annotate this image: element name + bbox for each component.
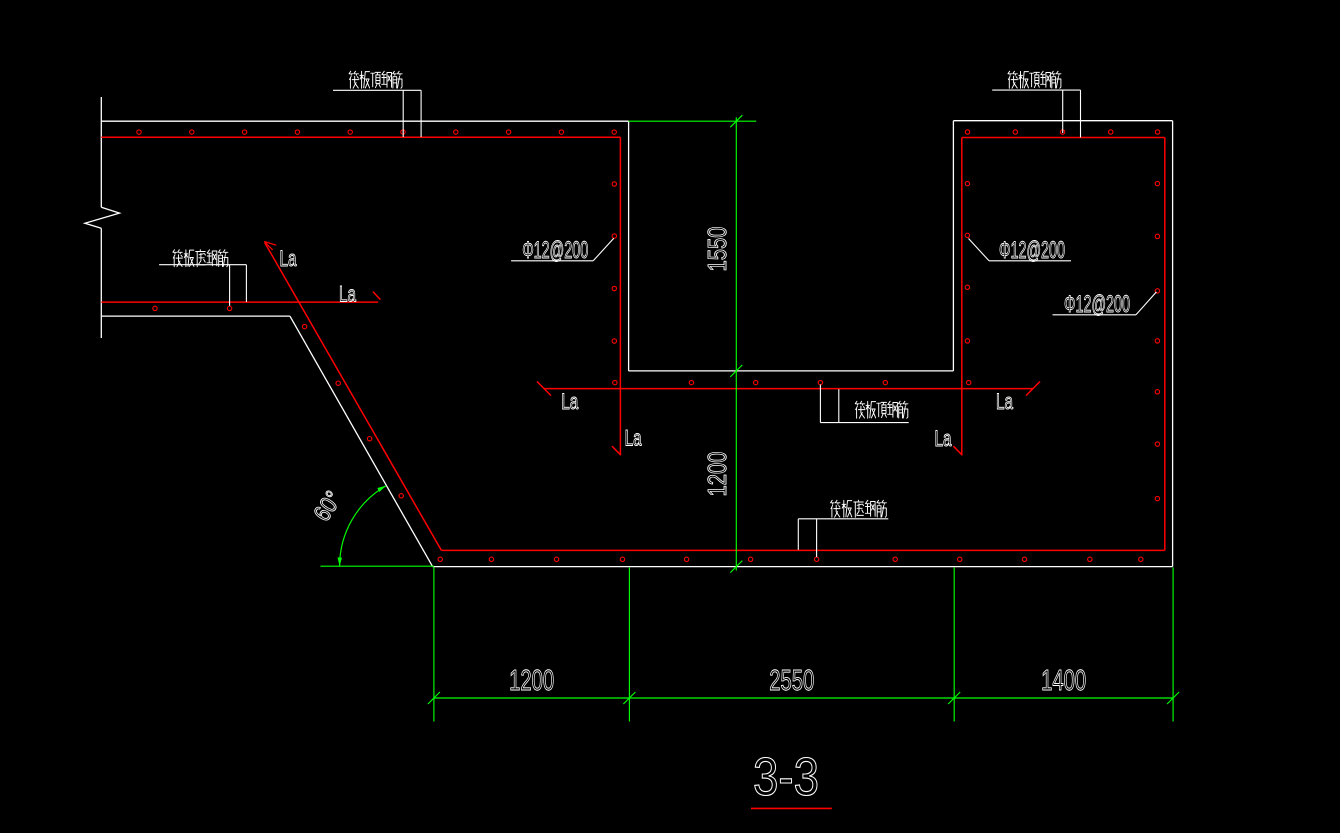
rebar section dots: right block top row	[965, 130, 1160, 134]
rebar: raft bottom bar	[441, 549, 1164, 551]
rebar section dots: pit bottom row	[613, 380, 971, 384]
concrete outline: bottom of raft	[433, 566, 1173, 568]
svg-text:1200: 1200	[509, 665, 554, 697]
vertical dimension line 1550/1200 (green)	[735, 117, 737, 570]
dimension tick bottom	[623, 692, 635, 704]
concrete outline: pit right wall	[952, 121, 954, 371]
rebar section dots: raft bottom row	[438, 557, 1143, 561]
rebar: right block top bar	[962, 137, 1165, 139]
svg-text:1200: 1200	[702, 452, 732, 497]
label Phi12@200 right leader	[1136, 292, 1156, 315]
concrete outline: pit bottom	[629, 370, 954, 372]
60 degree angle arc (green)	[340, 486, 387, 567]
rebar tick at end of upper slab bottom bar	[373, 292, 381, 300]
title underline (red)	[751, 807, 832, 809]
bottom dimension extension line x=433.9 (green)	[433, 568, 435, 722]
rebar: right block left bar bent down with La anchorage	[961, 138, 963, 456]
svg-text:La: La	[996, 389, 1014, 414]
label D underline	[798, 518, 888, 520]
concrete outline: right edge	[1172, 121, 1174, 567]
label text top slab top-bar (fa-ban-ding-gang-jin)	[349, 71, 402, 88]
bottom dimension extension line x=1173.1 (green)	[1172, 568, 1174, 722]
rebar section dots: right block left column	[965, 181, 969, 343]
rebar tick right end of pit bottom bar	[1026, 382, 1040, 396]
label D leader 1	[797, 519, 799, 550]
concrete outline: pit left wall	[628, 121, 630, 371]
label C leader 1	[819, 385, 821, 423]
rebar section dots: sloped haunch	[302, 324, 403, 498]
rebar: upper slab bottom bar (left, La extension)	[101, 301, 378, 303]
dimension tick at y=371	[730, 365, 742, 377]
label Phi12@200 mid leader	[969, 239, 990, 261]
label Phi12@200 left leader	[593, 238, 614, 260]
label E leader 2	[245, 265, 247, 302]
rebar anchorage tick (right block left bar end)	[953, 446, 962, 455]
label Phi12@200 right underline	[1053, 314, 1137, 316]
rebar anchorage tick (pit left bar end)	[612, 446, 621, 455]
bottom dimension line (green)	[434, 697, 1173, 699]
svg-text:La: La	[280, 246, 298, 271]
dimension tick bottom	[948, 692, 960, 704]
label text right block top-bar (fa-ban-ding-gang-jin)	[1008, 71, 1061, 88]
svg-text:1400: 1400	[1041, 665, 1086, 697]
bottom dimension extension line x=629.4 (green)	[628, 568, 630, 722]
label B leader 2	[1080, 90, 1082, 137]
svg-text:3-3: 3-3	[753, 747, 819, 807]
svg-text:Φ12@200: Φ12@200	[999, 237, 1065, 264]
label text raft bottom bar (fa-ban-di-gang-jin)	[831, 500, 887, 517]
label A underline	[333, 89, 421, 91]
bottom dimension extension line x=954.2 (green)	[953, 568, 955, 722]
break symbol on left wall edge	[85, 207, 120, 228]
svg-text:La: La	[339, 282, 357, 307]
svg-text:La: La	[935, 426, 953, 451]
concrete outline: upper slab soffit (left)	[101, 315, 290, 317]
concrete outline: top surface left slab	[101, 120, 628, 122]
rebar: sloped haunch bar with La extension arrow	[265, 243, 442, 551]
rebar section dots: upper slab bottom row (left)	[153, 306, 232, 310]
rebar: top bar bent down pit left wall with La anchorage	[619, 137, 621, 455]
rebar tick left end of pit bottom bar	[537, 382, 551, 396]
label E leader 1	[229, 265, 231, 306]
rebar: pit bottom top bar with La extensions	[544, 388, 1033, 390]
arc arrowhead top	[377, 486, 386, 492]
angle baseline at haunch toe (green)	[321, 565, 435, 567]
svg-text:1550: 1550	[702, 227, 732, 272]
dimension tick bottom	[1167, 692, 1179, 704]
dimension tick at y=121	[730, 115, 742, 127]
svg-text:Φ12@200: Φ12@200	[522, 237, 588, 264]
concrete outline: left wall edge lower part	[100, 228, 102, 338]
label D leader 2	[816, 519, 818, 557]
svg-text:La: La	[561, 389, 579, 414]
svg-text:Φ12@200: Φ12@200	[1064, 291, 1130, 318]
label text pit bottom top-bar (fa-ban-ding-gang-jin)	[855, 401, 908, 418]
label C underline	[820, 422, 908, 424]
arc arrowhead bottom	[338, 557, 343, 566]
rebar: top slab top bar	[101, 136, 620, 138]
label C leader 2	[838, 389, 840, 422]
concrete outline: left wall edge (vertical, with break)	[100, 97, 102, 207]
dimension tick at y=566.6	[730, 561, 742, 573]
label A leader 1	[402, 90, 404, 137]
label Phi12@200 left underline	[511, 260, 593, 262]
label A leader 2	[420, 90, 422, 137]
label text upper slab bottom bar (fa-ban-di-gang-jin)	[173, 250, 228, 267]
concrete outline: top surface right block	[953, 120, 1172, 122]
arrowhead of sloped bar	[264, 242, 276, 250]
label Phi12@200 mid underline	[989, 260, 1071, 262]
label B leader 1	[1062, 90, 1064, 133]
rebar: right edge bar	[1164, 138, 1166, 551]
label B underline	[992, 89, 1080, 91]
svg-text:2550: 2550	[769, 665, 814, 697]
svg-text:La: La	[625, 425, 643, 450]
dimension extension line at top of pit (green)	[629, 120, 757, 122]
rebar section dots: pit left wall column	[612, 182, 616, 343]
rebar section dots: top slab top row	[137, 130, 617, 134]
concrete outline: sloped haunch	[290, 316, 433, 566]
rebar section dots: right edge column	[1155, 181, 1159, 500]
label E underline	[159, 264, 246, 266]
dimension tick bottom	[428, 692, 440, 704]
